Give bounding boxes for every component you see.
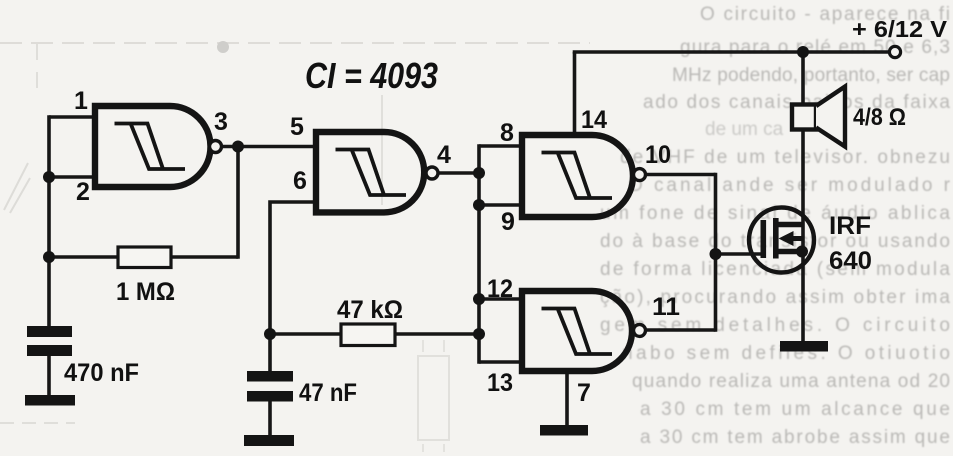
value label 47 kΩ (337, 296, 403, 324)
transistor Q1 IRF640 (749, 208, 814, 273)
svg-text:O canal ande ser modulado r: O canal ande ser modulado r (628, 175, 951, 196)
wire 1M left (49, 255, 119, 259)
junction dot bus pin4 (473, 167, 485, 179)
svg-text:4/8 Ω: 4/8 Ω (853, 104, 906, 131)
junction dot pin2/left (43, 171, 55, 183)
svg-text:47 nF: 47 nF (299, 379, 357, 407)
bubble U1A output (210, 141, 222, 153)
pin label 14 (581, 106, 607, 134)
NAND gate U1C (4093) (522, 135, 633, 217)
svg-text:1: 1 (74, 87, 88, 115)
wire gate3 out (645, 173, 716, 177)
ground below C2 (244, 435, 294, 446)
wire pin2 (49, 175, 95, 179)
ground below mosfet (780, 341, 828, 352)
svg-text:12: 12 (487, 275, 513, 303)
pin label 9 (501, 208, 515, 236)
schmitt symbol U1D (542, 309, 613, 355)
bubble U1C output (634, 169, 646, 181)
junction dot 1M/C1 (43, 251, 55, 263)
svg-text:4: 4 (437, 141, 451, 169)
pin label 8 (500, 119, 514, 147)
wire stub pin9 (479, 203, 522, 207)
wire gate1 out to gate2 in (221, 145, 316, 149)
junction dot supply rail (797, 46, 809, 58)
speaker 4/8 Ω (792, 87, 845, 147)
wire 47nF to ground (268, 401, 272, 436)
pin label 10 (645, 141, 671, 169)
svg-text:10: 10 (645, 141, 671, 169)
title CI = 4093 (305, 55, 438, 96)
schmitt symbol U1C (542, 153, 613, 199)
pin label 12 (487, 275, 513, 303)
svg-text:8: 8 (500, 119, 514, 147)
svg-text:11: 11 (652, 293, 680, 321)
wire top supply rail (573, 50, 890, 54)
wire 47k left (270, 332, 341, 336)
value label 47 nF (299, 379, 357, 407)
pin label 2 (76, 178, 90, 206)
background bleed text (600, 4, 951, 448)
value label 4/8 Ω (853, 104, 906, 131)
wire stub pin8 (479, 144, 522, 148)
wire drain-source vertical (801, 52, 805, 341)
supply terminal +6/12V (889, 46, 900, 57)
svg-text:7: 7 (577, 379, 591, 407)
pin label 7 (577, 379, 591, 407)
NAND gate U1A (4093) (95, 106, 210, 187)
bubble U1B output (426, 167, 438, 179)
junction dot 47k/C2 (264, 328, 276, 340)
mosfet body arrow (779, 231, 809, 258)
junction dot bus pin12 (473, 293, 485, 305)
value label IRF 640 (829, 212, 872, 275)
value label 1 MΩ (116, 278, 175, 306)
svg-text:13: 13 (487, 369, 513, 397)
svg-text:5: 5 (290, 113, 304, 141)
ground pin7 (540, 425, 588, 436)
pin label 1 (74, 87, 88, 115)
capacitor C1 470 nF (27, 326, 72, 356)
wire gate2 out (437, 171, 479, 175)
wire input bus vertical (477, 144, 481, 364)
svg-text:quando realiza uma antena od 2: quando realiza uma antena od 20 (632, 371, 950, 392)
pin label 11 (652, 293, 680, 321)
wire stub pin13 (479, 360, 522, 364)
wire 47k right (395, 332, 479, 336)
wire mosfet gate tap (716, 252, 763, 256)
wire pin14 vertical (573, 52, 577, 135)
NAND gate U1B (4093) (316, 132, 424, 212)
svg-text:47 kΩ: 47 kΩ (337, 296, 403, 324)
svg-text:640: 640 (829, 247, 872, 275)
svg-text:IRF: IRF (829, 212, 871, 240)
schmitt symbol U1A (115, 124, 186, 170)
wire 1M right to feedback (171, 255, 238, 259)
pin label 6 (293, 167, 307, 195)
svg-text:1 MΩ: 1 MΩ (116, 278, 175, 306)
svg-text:14: 14 (581, 106, 607, 134)
supply label +6/12V (852, 16, 948, 42)
schmitt symbol U1B (336, 150, 407, 196)
svg-text:3: 3 (214, 108, 228, 136)
resistor R1 1 MΩ (118, 247, 171, 268)
wire pin6 (270, 202, 316, 372)
pin label 5 (290, 113, 304, 141)
wire output bus vertical (714, 173, 718, 332)
svg-text:+ 6/12 V: + 6/12 V (852, 16, 948, 42)
bubble U1D output (634, 324, 646, 336)
pin label 13 (487, 369, 513, 397)
wire gate4 out (646, 328, 716, 332)
NAND gate U1D (4093) (522, 291, 632, 371)
svg-text:470 nF: 470 nF (64, 359, 139, 387)
svg-text:de um ca: de um ca (705, 119, 784, 140)
wire feedback vertical (236, 147, 240, 259)
resistor R2 47 kΩ (341, 324, 395, 346)
capacitor C2 47 nF (247, 371, 293, 402)
faint scan artifacts (0, 41, 590, 452)
wire left vertical (47, 115, 51, 327)
svg-text:6: 6 (293, 167, 307, 195)
junction dot gate1 output (232, 141, 244, 153)
svg-text:2: 2 (76, 178, 90, 206)
wire pin7 (565, 373, 569, 426)
junction dot output bus gate tap (710, 248, 722, 260)
wire stub pin12 (479, 297, 522, 301)
wire pin1 (49, 115, 95, 119)
pin label 3 (214, 108, 228, 136)
ground below C1 (25, 395, 75, 406)
wire 470nF to ground (47, 355, 51, 396)
junction dot bus pin9 (473, 199, 485, 211)
junction dot bus 47k (473, 328, 485, 340)
pin label 4 (437, 141, 451, 169)
svg-text:9: 9 (501, 208, 515, 236)
value label 470 nF (64, 359, 139, 387)
svg-text:CI = 4093: CI = 4093 (305, 55, 438, 96)
svg-text:MHz podendo, portanto, ser cap: MHz podendo, portanto, ser cap (672, 65, 950, 86)
